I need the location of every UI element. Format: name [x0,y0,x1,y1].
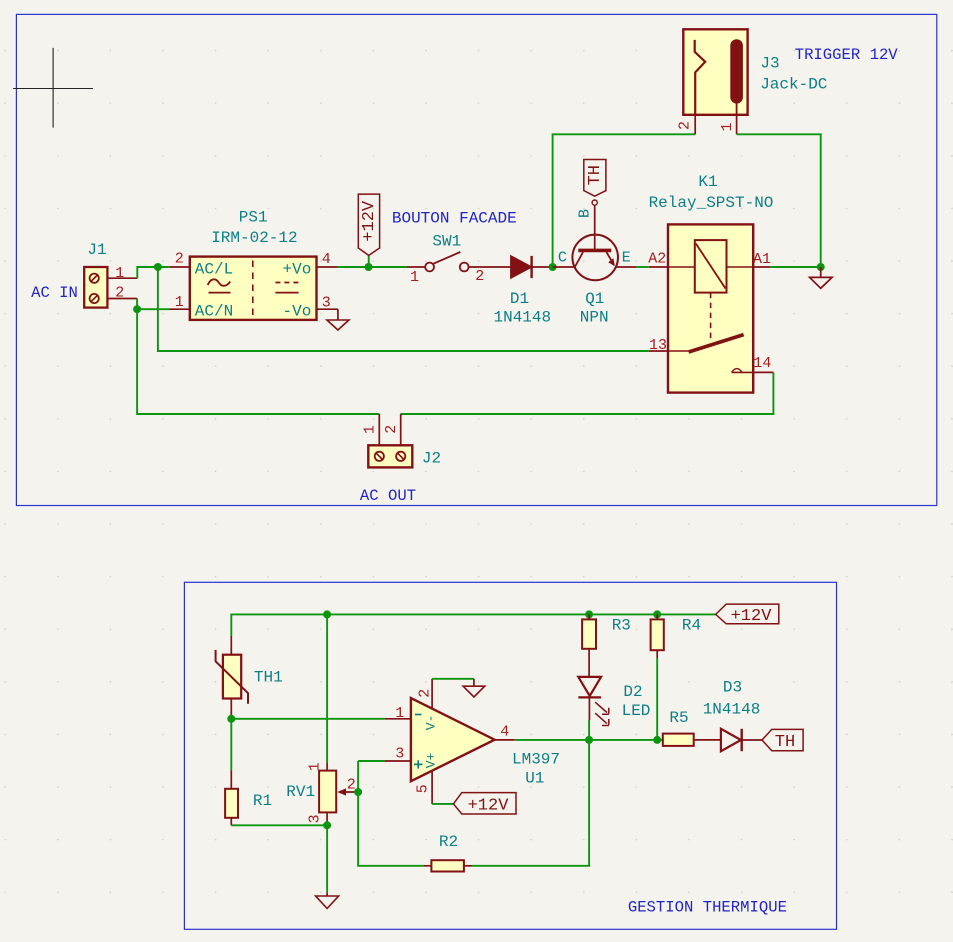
PS1 pin 3 [317,308,338,310]
svg-text:NPN: NPN [580,309,609,327]
svg-text:U1: U1 [525,770,544,788]
J1 pin 2 [107,298,137,300]
power flag +12V at U1 pin 5 [453,793,516,816]
svg-text:B: B [576,209,593,218]
svg-text:1N4148: 1N4148 [703,700,761,718]
svg-text:2: 2 [115,285,124,302]
wire junction to J3 pin 2 [553,134,696,267]
svg-text:3: 3 [306,814,323,823]
svg-text:K1: K1 [698,173,717,191]
ground at U1 pin 2 [463,679,485,697]
junction node J1.1/PS1 [154,263,162,271]
junction node output/D2 [585,736,593,744]
svg-text:AC OUT: AC OUT [360,487,416,505]
svg-text:TRIGGER 12V: TRIGGER 12V [795,46,899,64]
svg-text:V+: V+ [423,753,438,769]
svg-text:1: 1 [115,265,124,282]
switch SW1 [407,252,511,271]
svg-text:3: 3 [395,745,404,762]
svg-text:D1: D1 [510,290,529,308]
wire rail to RV1 pin 1 [326,614,328,762]
svg-text:1: 1 [307,762,324,771]
svg-text:J1: J1 [87,241,106,259]
svg-text:1: 1 [410,269,419,286]
svg-text:2: 2 [175,251,184,268]
svg-text:GESTION THERMIQUE: GESTION THERMIQUE [628,899,787,917]
thermistor TH1 [216,636,248,719]
K1 pin A1 [753,266,770,268]
svg-text:R5: R5 [669,709,688,727]
svg-text:SW1: SW1 [432,232,461,250]
wire U1 pin 5 to +12V flag [432,803,453,805]
svg-text:5: 5 [414,784,431,793]
wire RV1.3 to ground [326,825,328,892]
svg-text:Relay_SPST-NO: Relay_SPST-NO [649,194,774,212]
svg-text:+12V: +12V [468,796,510,815]
ground at PS1 pin 3 [327,309,349,330]
svg-text:R2: R2 [439,833,458,851]
resistor R2 [423,860,472,871]
connector J1 [84,267,107,308]
svg-text:2: 2 [475,268,484,285]
svg-text:LED: LED [622,702,651,720]
svg-text:+12V: +12V [360,200,379,242]
svg-text:LM397: LM397 [512,751,560,769]
svg-text:4: 4 [322,251,331,268]
wire J3 pin 1 to A1 rail [737,134,821,267]
wire relay pin 14 to J2 pin 2 [401,372,774,414]
svg-text:1: 1 [362,425,379,434]
PS1 pin 2 [169,266,190,268]
op-amp U1 [385,679,515,804]
svg-text:J2: J2 [422,450,441,468]
junction node RV1 wiper [354,788,362,796]
wire +12V top rail [231,614,715,636]
svg-text:+12V: +12V [731,607,773,626]
svg-text:AC IN: AC IN [31,284,78,302]
svg-text:R4: R4 [682,617,701,635]
J2 pin 2 stub [400,414,402,445]
wire wiper vertical to R2 [358,761,423,866]
wire J1.1 to PS1 AC/L [137,267,169,278]
J1 pin 1 [107,277,137,279]
svg-text:TH: TH [775,733,795,752]
diode D3 [721,729,762,751]
resistor R5 [663,734,721,746]
diode D1 [511,256,553,278]
wire D2 to output node [588,720,590,740]
svg-text:D2: D2 [623,683,642,701]
J3 pin 2 stub [694,115,696,135]
transistor Q1 [553,205,636,280]
ground at A1 [810,267,833,288]
svg-text:J3: J3 [760,55,779,73]
svg-text:13: 13 [649,337,667,354]
wire PS1 +Vo to SW1 [338,266,407,268]
LED D2 [578,677,609,726]
global label TH top section [584,160,606,206]
power supply PS1 body [190,257,317,320]
svg-text:AC/L: AC/L [195,261,233,279]
relay K1 [668,224,753,392]
junction node rail/RV1 [323,610,331,618]
svg-text:TH: TH [586,165,605,185]
PS1 pin 1 [169,308,190,310]
svg-text:1: 1 [395,705,404,722]
junction node D1/Q1/J3 [549,263,557,271]
wire Q1 E to relay A2 [636,266,649,268]
svg-text:IRM-02-12: IRM-02-12 [211,229,297,247]
svg-text:V-: V- [423,715,438,731]
power flag +12V top section [358,194,379,267]
K1 pin 13 [649,350,668,352]
PS1 pin 4 [317,266,338,268]
svg-text:TH1: TH1 [254,669,283,687]
sheet border top schematic [16,14,936,505]
global label TH right [762,729,803,751]
junction node RV1.3/R1 [323,821,331,829]
K1 pin A2 [649,266,668,268]
svg-text:Q1: Q1 [585,290,604,308]
svg-text:4: 4 [500,724,509,741]
svg-text:1: 1 [175,294,184,311]
junction node A1 [817,263,825,271]
power flag +12V bottom right [716,604,779,626]
wire U1 output [515,739,663,741]
svg-text:1: 1 [719,122,736,131]
svg-text:2: 2 [383,425,400,434]
junction node TH1/R1/U1.1 [227,715,235,723]
origin crosshair [13,48,93,128]
wire junction to U1 pin 1 [231,718,384,720]
J3 pin 1 stub [736,115,738,135]
svg-text:A2: A2 [648,250,666,267]
wire J1.2 to PS1 AC/N [137,299,169,310]
svg-text:R3: R3 [612,617,631,635]
resistor R3 [582,614,596,677]
svg-text:-Vo: -Vo [282,302,311,320]
wire R2 to output node [472,740,589,866]
wire junction to J2 pin 1 [137,309,379,414]
potentiometer RV1 [319,763,358,826]
svg-text:14: 14 [753,355,771,372]
svg-text:PS1: PS1 [239,209,268,227]
wire junction to relay pin 13 [158,267,649,351]
resistor R1 [225,719,238,826]
J2 pin 1 stub [378,414,380,445]
jack J3 [683,29,747,115]
svg-text:A1: A1 [753,251,771,268]
svg-text:+Vo: +Vo [282,261,311,279]
connector J2 [368,445,412,467]
K1 pin 14 [753,371,773,373]
U1 input minus mark [415,714,422,716]
sheet border bottom schematic [184,582,836,929]
wire R1 to RV1 pin 3 [231,824,327,826]
junction node output/R4 [653,736,661,744]
svg-text:BOUTON FACADE: BOUTON FACADE [392,209,517,227]
wire wiper to U1 pin 3 [358,760,385,762]
svg-text:2: 2 [416,689,433,698]
svg-text:D3: D3 [723,678,742,696]
svg-text:AC/N: AC/N [195,302,233,320]
junction node +12V [365,263,373,271]
wire R4 to output node [656,658,658,740]
svg-text:R1: R1 [253,792,272,810]
junction node rail/R4 [653,610,661,618]
wire U1 pin 2 to ground [432,678,474,680]
junction node rail/R3 [585,610,593,618]
svg-text:E: E [622,249,631,266]
resistor R4 [651,614,664,658]
svg-text:3: 3 [322,295,331,312]
svg-text:1N4148: 1N4148 [493,309,551,327]
svg-text:2: 2 [676,121,693,130]
ground bottom section [316,892,339,908]
svg-text:Jack-DC: Jack-DC [760,76,827,94]
junction node J1.2/PS1 [133,305,141,313]
svg-text:RV1: RV1 [286,783,315,801]
U1 input plus mark [414,760,423,768]
wire A1 to ground node [770,266,821,268]
svg-text:C: C [558,249,567,266]
